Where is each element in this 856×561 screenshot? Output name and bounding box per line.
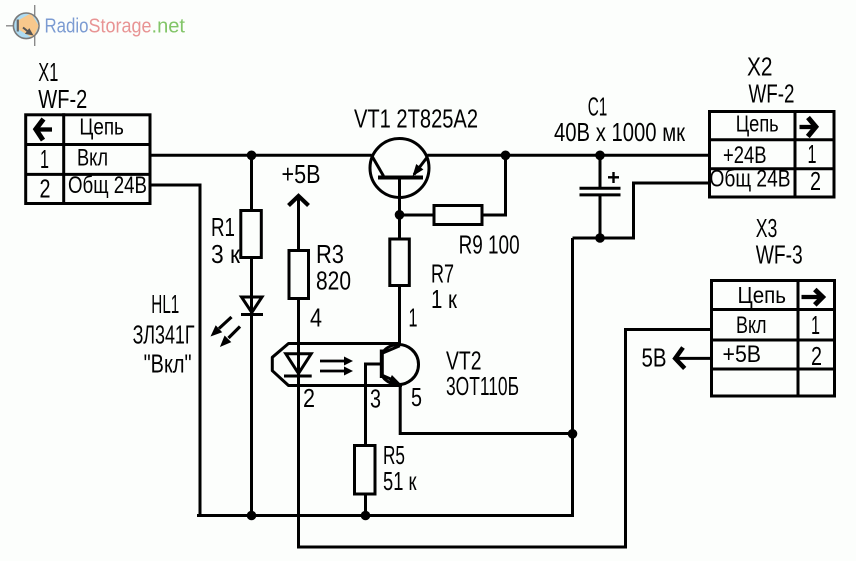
transistor VT1 bbox=[370, 139, 429, 198]
svg-text:2: 2 bbox=[811, 341, 822, 371]
svg-text:WF-2: WF-2 bbox=[38, 84, 87, 114]
optocoupler U1 body bbox=[272, 344, 402, 386]
resistor R3 label bbox=[316, 239, 351, 296]
svg-text:WF-2: WF-2 bbox=[749, 79, 795, 109]
connector X3 header arrow bbox=[802, 290, 823, 305]
svg-text:Цепь: Цепь bbox=[738, 282, 787, 308]
svg-text:2: 2 bbox=[303, 383, 315, 413]
svg-text:1: 1 bbox=[811, 310, 820, 340]
wire R9 left lead bbox=[400, 214, 435, 217]
svg-text:Общ 24В: Общ 24В bbox=[68, 172, 147, 199]
node junction C1 top bbox=[595, 151, 605, 161]
wire R1 top lead bbox=[250, 155, 253, 210]
connector X2 header arrow bbox=[800, 118, 816, 137]
svg-text:3 к: 3 к bbox=[211, 239, 241, 269]
svg-text:R3: R3 bbox=[316, 239, 344, 269]
svg-text:R1: R1 bbox=[211, 212, 235, 242]
wire VT1 base lead down bbox=[398, 178, 401, 240]
wire bottom common rail bbox=[197, 514, 574, 517]
svg-text:X2: X2 bbox=[747, 52, 773, 82]
optocoupler light arrows bbox=[320, 357, 353, 376]
connector X2 designator label bbox=[747, 52, 795, 109]
power 5В output arrow bbox=[675, 348, 711, 369]
svg-text:Цепь: Цепь bbox=[79, 114, 124, 140]
wire R1 to HL1 bbox=[250, 258, 253, 315]
resistor R9 bbox=[434, 206, 482, 225]
capacitor C1 plus sign bbox=[608, 172, 619, 183]
svg-text:1: 1 bbox=[808, 139, 817, 169]
LED HL1 bbox=[241, 297, 263, 315]
svg-text:+5В: +5В bbox=[723, 341, 762, 368]
wire X1 pin2 down to ground rail bbox=[150, 185, 200, 517]
node junction C1 bottom bbox=[595, 233, 605, 243]
capacitor C1 bbox=[580, 155, 621, 238]
svg-text:5: 5 bbox=[411, 382, 422, 412]
svg-text:Общ 24В: Общ 24В bbox=[710, 166, 791, 193]
svg-text:X3: X3 bbox=[756, 213, 778, 243]
wire X2 pin2 to common bbox=[573, 183, 710, 238]
power +5В arrow bbox=[289, 196, 309, 251]
svg-text:X1: X1 bbox=[38, 57, 58, 87]
resistor R7 label bbox=[431, 259, 457, 315]
wire R5 bottom to rail bbox=[364, 494, 367, 516]
node junction emitter / common bbox=[568, 429, 578, 439]
node junction HL1 bottom rail bbox=[247, 511, 257, 521]
wire common vertical down to rail bbox=[571, 238, 574, 516]
wire VT2 base lead bbox=[366, 364, 382, 446]
transistor VT2 label 3ОТ110Б bbox=[446, 346, 519, 402]
logo RadioStorage.net bbox=[6, 5, 185, 46]
connector X3 table WF-3 bbox=[712, 279, 835, 396]
wire R9 right lead up bbox=[482, 155, 506, 215]
svg-text:1: 1 bbox=[40, 144, 49, 174]
connector X3 designator label bbox=[756, 213, 803, 270]
resistor R1 label bbox=[211, 212, 241, 269]
resistor R3 bbox=[289, 251, 309, 299]
svg-text:WF-3: WF-3 bbox=[756, 240, 803, 270]
resistor R5 bbox=[355, 446, 376, 495]
wire HL1 cathode to rail bbox=[250, 315, 253, 516]
connector X1 header arrow bbox=[36, 119, 52, 140]
wire R3 to optocoupler pin 4 bbox=[297, 297, 300, 376]
resistor R7 bbox=[390, 239, 410, 286]
optocoupler LED bbox=[284, 354, 312, 376]
svg-text:.net: .net bbox=[152, 15, 186, 37]
svg-text:51 к: 51 к bbox=[383, 466, 417, 496]
svg-text:2: 2 bbox=[40, 174, 51, 204]
node junction R9 right top bbox=[501, 151, 511, 161]
resistor R1 bbox=[241, 211, 261, 258]
svg-text:5В: 5В bbox=[642, 343, 667, 373]
svg-text:3: 3 bbox=[370, 384, 381, 414]
svg-text:ЗЛ341Г: ЗЛ341Г bbox=[133, 320, 195, 350]
connector X1 designator label bbox=[38, 57, 87, 114]
wire optocoupler pin2 to X3 pin1 bbox=[299, 330, 712, 548]
svg-text:Radio: Radio bbox=[45, 15, 89, 37]
svg-text:HL1: HL1 bbox=[151, 289, 179, 319]
resistor R5 label bbox=[383, 440, 417, 496]
LED HL1 emission arrows bbox=[211, 317, 241, 347]
svg-text:Цепь: Цепь bbox=[736, 111, 779, 137]
svg-text:2: 2 bbox=[810, 166, 821, 196]
wire R7 to VT2 collector pin 1 bbox=[398, 285, 401, 346]
svg-text:Вкл: Вкл bbox=[736, 312, 767, 339]
node junction VT1 base / R9 bbox=[395, 210, 405, 220]
connector X1 table WF-2 bbox=[26, 113, 150, 203]
svg-text:40В х 1000 мк: 40В х 1000 мк bbox=[554, 117, 685, 147]
svg-text:VT1 2Т825А2: VT1 2Т825А2 bbox=[354, 104, 478, 134]
wire VT1 collector to X2 pin1 bbox=[427, 154, 709, 157]
svg-text:1 к: 1 к bbox=[431, 284, 457, 314]
svg-text:+5В: +5В bbox=[282, 159, 321, 189]
LED HL1 label bbox=[133, 289, 195, 379]
svg-text:820: 820 bbox=[316, 266, 351, 296]
capacitor C1 label bbox=[554, 92, 685, 148]
svg-text:Storage: Storage bbox=[89, 15, 152, 37]
node junction R5 bottom rail bbox=[361, 511, 371, 521]
svg-text:"Вкл": "Вкл" bbox=[144, 349, 192, 379]
wire X1 pin1 to VT1 emitter bbox=[150, 154, 372, 157]
transistor VT2 bbox=[382, 345, 419, 385]
svg-text:1: 1 bbox=[409, 303, 418, 333]
svg-text:4: 4 bbox=[310, 303, 322, 333]
svg-text:R9 100: R9 100 bbox=[459, 230, 520, 260]
svg-text:3ОТ110Б: 3ОТ110Б bbox=[446, 371, 519, 401]
node junction R1 top bbox=[247, 151, 257, 161]
wire VT2 emitter to common node bbox=[400, 383, 572, 433]
connector X2 table WF-2 bbox=[710, 110, 835, 197]
svg-text:Вкл: Вкл bbox=[77, 145, 108, 172]
